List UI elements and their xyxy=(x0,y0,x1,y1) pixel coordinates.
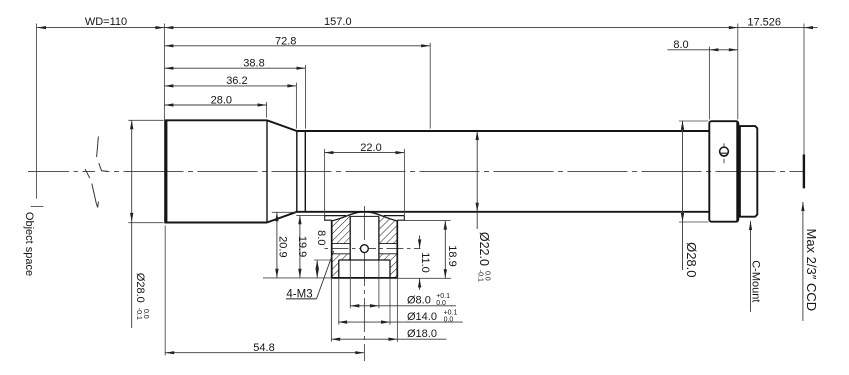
4-M3 underline xyxy=(286,298,317,300)
dim 72.8 xyxy=(164,45,430,47)
svg-text:-0.1: -0.1 xyxy=(477,270,484,282)
ext line 22.0 right xyxy=(403,149,405,220)
dim 157.0 xyxy=(164,27,737,29)
svg-text:WD=110: WD=110 xyxy=(85,16,127,28)
mounting clamp flange xyxy=(325,216,405,221)
svg-text:C-Mount: C-Mount xyxy=(750,260,762,302)
set screw on ring xyxy=(720,147,729,156)
svg-text:Ø28.0: Ø28.0 xyxy=(684,242,699,277)
arrows 19.9 xyxy=(298,215,301,224)
main tube xyxy=(297,130,710,132)
arrows dia14.0 xyxy=(338,320,347,323)
dim 22.0 xyxy=(324,152,404,154)
dim 54.8 xyxy=(165,352,364,354)
svg-text:11.0: 11.0 xyxy=(419,252,431,273)
screw channel top edge xyxy=(350,215,379,217)
svg-text:Ø18.0: Ø18.0 xyxy=(407,328,437,340)
arrows 8.0 step xyxy=(316,260,319,269)
svg-text:+0.1: +0.1 xyxy=(436,293,450,300)
dim dia 14.0 xyxy=(338,321,463,323)
dim 20.9 xyxy=(276,212,278,278)
svg-text:72.8: 72.8 xyxy=(275,35,296,47)
ext line dia18 left xyxy=(330,278,332,342)
ext line block bottom left xyxy=(263,277,331,279)
barrel internal verticals xyxy=(267,120,305,222)
dim WD=110 xyxy=(37,27,164,29)
ext line block bottom right xyxy=(397,277,451,279)
arrows 18.9 xyxy=(444,221,447,230)
ext line 72.8 xyxy=(429,43,431,129)
tolerance dia28.0 front xyxy=(135,308,149,320)
svg-text:Ø28.0: Ø28.0 xyxy=(134,273,146,303)
dim 36.2 xyxy=(164,85,296,87)
svg-text:157.0: 157.0 xyxy=(324,16,352,28)
M3 hole axis centerline xyxy=(324,248,421,250)
dim 8.0 left xyxy=(316,260,318,278)
arrows dia28.0 rear xyxy=(681,121,684,130)
ext line 19.9 top xyxy=(296,215,325,217)
ext line C-mount face xyxy=(737,24,739,120)
svg-text:Ø22.0: Ø22.0 xyxy=(477,232,491,266)
arrows 11.0 xyxy=(418,239,421,248)
svg-text:Ø8.0: Ø8.0 xyxy=(407,295,431,307)
svg-text:-0.1: -0.1 xyxy=(135,308,142,320)
ext line dia14 right xyxy=(389,278,391,324)
ext line image plane xyxy=(803,24,805,155)
dim 18.9 xyxy=(444,221,446,279)
clamp vertical centerline xyxy=(363,206,365,361)
arrows dia8.0 xyxy=(350,304,359,307)
clamp block outline xyxy=(331,221,397,278)
svg-text:19.9: 19.9 xyxy=(296,236,308,257)
svg-text:17.526: 17.526 xyxy=(747,17,781,29)
dome boss on clamp xyxy=(332,212,398,221)
object space label tick xyxy=(31,205,44,207)
arrows dia28.0 front xyxy=(130,120,133,129)
svg-text:Ø14.0: Ø14.0 xyxy=(407,311,437,323)
front barrel outline xyxy=(164,120,709,222)
svg-text:Max 2/3″ CCD: Max 2/3″ CCD xyxy=(804,228,819,311)
dim 17.526 xyxy=(738,27,804,29)
ext line dia28 rear bottom xyxy=(679,221,709,223)
tolerance dia22.0 xyxy=(477,270,491,282)
arrows dia22.0 xyxy=(476,131,479,140)
set screw axis ticks xyxy=(723,143,725,147)
svg-text:8.0: 8.0 xyxy=(315,230,327,245)
clamp screw hole xyxy=(361,245,369,253)
ext line front face xyxy=(163,24,165,120)
dim 8.0 rear xyxy=(668,49,710,51)
svg-text:38.8: 38.8 xyxy=(243,58,264,70)
ext line 28.0 xyxy=(266,102,268,118)
leader Max CCD xyxy=(802,202,804,321)
ext line rear 8.0 left xyxy=(708,47,710,120)
leader C-Mount xyxy=(750,221,752,312)
svg-text:18.9: 18.9 xyxy=(446,245,458,266)
svg-text:22.0: 22.0 xyxy=(360,142,381,154)
svg-text:+0.1: +0.1 xyxy=(444,309,458,316)
cone to main tube xyxy=(267,120,297,131)
svg-text:Object space: Object space xyxy=(23,212,35,276)
ext line dia18 right xyxy=(396,278,398,342)
ext line dia28 front top xyxy=(128,119,163,121)
hatching of clamp section xyxy=(332,214,398,278)
dimension lines xyxy=(37,28,818,353)
ext line 20.9 top xyxy=(272,211,297,213)
svg-text:0.0: 0.0 xyxy=(436,300,446,307)
ext line 38.8 xyxy=(305,65,307,129)
dim dia 28.0 rear xyxy=(682,121,684,270)
ext line dia28 front bottom xyxy=(128,222,163,224)
svg-text:0.0: 0.0 xyxy=(444,316,454,323)
svg-text:0.0: 0.0 xyxy=(142,309,149,319)
arrows dia18.0 xyxy=(331,338,340,341)
ext line dia8 right xyxy=(378,261,380,309)
dim 38.8 xyxy=(164,67,305,69)
CCD image plane mark xyxy=(803,155,805,189)
svg-text:28.0: 28.0 xyxy=(211,94,232,106)
svg-text:8.0: 8.0 xyxy=(673,39,688,51)
dim 19.9 xyxy=(299,215,301,277)
ext line dia14 left xyxy=(338,278,340,324)
clamp inner bore lines xyxy=(339,216,390,278)
ext line 22.0 left xyxy=(324,149,326,220)
main optical axis centerline xyxy=(28,170,804,172)
ext line dia28 rear top xyxy=(679,120,709,122)
C-mount thread cylinder xyxy=(740,126,757,217)
dim dia 22.0 xyxy=(476,131,478,229)
svg-text:20.9: 20.9 xyxy=(276,236,288,257)
svg-text:54.8: 54.8 xyxy=(253,342,274,354)
dim dia 28.0 front xyxy=(131,120,133,328)
arrows 20.9 xyxy=(275,212,278,221)
dim 28.0 xyxy=(164,104,266,106)
M3 cross hole slots xyxy=(332,244,398,254)
svg-text:0.0: 0.0 xyxy=(484,271,491,281)
ext line 18.9 top xyxy=(405,220,451,222)
ext line 36.2 xyxy=(295,83,297,129)
lens front face (thick) xyxy=(164,120,167,223)
svg-text:36.2: 36.2 xyxy=(226,75,247,87)
rear flange ring xyxy=(709,121,738,222)
ext line 8.0 step xyxy=(314,259,332,261)
dim 11.0 xyxy=(419,235,421,248)
object plane line xyxy=(36,24,38,199)
dim dia 8.0 xyxy=(350,305,456,307)
dim dia 18.0 xyxy=(331,338,446,340)
ext line 54.8 left xyxy=(164,226,166,356)
leader 4-M3 xyxy=(286,298,317,300)
break zigzag in object space xyxy=(85,137,108,208)
ext line dia8 left xyxy=(349,261,351,309)
